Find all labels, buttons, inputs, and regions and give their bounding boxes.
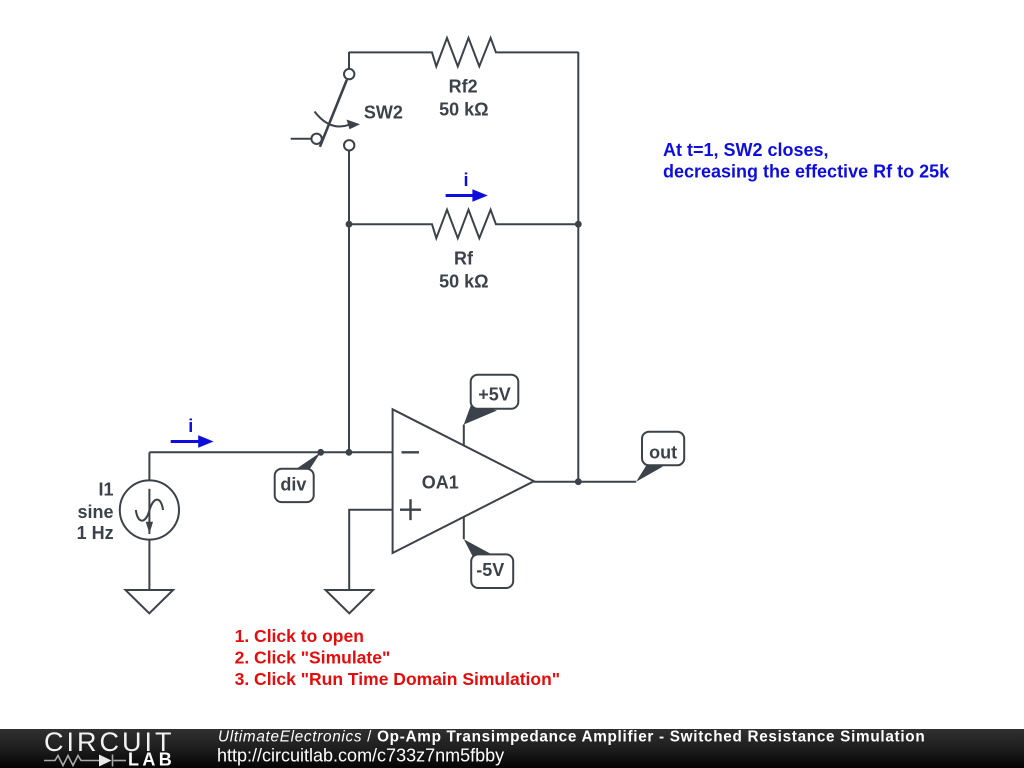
svg-text:UltimateElectronics / Op-Amp T: UltimateElectronics / Op-Amp Transimpeda… [218, 729, 925, 746]
svg-text:At t=1, SW2 closes,: At t=1, SW2 closes, [663, 140, 829, 160]
current source I1 arrowhead [146, 522, 153, 534]
wire non-inverting input [349, 510, 392, 590]
svg-text:i: i [188, 416, 193, 436]
wire +5V supply lead [463, 425, 465, 446]
wire I1 bottom lead [148, 540, 150, 590]
flag -5V tail [464, 539, 492, 557]
flag +5V box [471, 375, 519, 409]
svg-text:div: div [280, 475, 306, 495]
wire I1 top lead [148, 452, 150, 480]
op-amp OA1 minus sign [402, 451, 420, 453]
svg-text:2. Click "Simulate": 2. Click "Simulate" [235, 647, 391, 667]
svg-text:Rf2: Rf2 [449, 77, 478, 97]
flag div box [275, 469, 314, 502]
wire SW2 bottom to Rf node [348, 151, 350, 453]
svg-text:-5V: -5V [476, 560, 504, 580]
resistor Rf [349, 210, 578, 239]
wire right vertical rail [577, 52, 579, 482]
node dot inverting input [346, 449, 353, 456]
resistor Rf2 [349, 38, 578, 67]
svg-text:LAB: LAB [128, 749, 175, 768]
switch SW2 actuation arrowhead [347, 120, 361, 130]
current source I1 arrow shaft [148, 489, 150, 534]
wire top-left vertical (top rail to SW2) [348, 52, 350, 69]
svg-text:50 kΩ: 50 kΩ [439, 272, 488, 292]
svg-text:50 kΩ: 50 kΩ [439, 100, 488, 120]
svg-text:Rf: Rf [454, 249, 474, 269]
op-amp OA1 body [393, 409, 534, 553]
flag div tail [294, 452, 321, 471]
switch SW2 actuation arc [315, 112, 349, 127]
wire inverting input [149, 451, 392, 453]
footer bar [0, 729, 1024, 768]
flag out box [642, 432, 684, 466]
current source I1 circle [120, 480, 179, 539]
svg-text:decreasing the effective Rf to: decreasing the effective Rf to 25k [663, 161, 950, 181]
node dot output [575, 478, 582, 485]
svg-text:SW2: SW2 [364, 103, 403, 123]
svg-text:out: out [649, 443, 677, 463]
switch SW2 common stub [291, 138, 312, 140]
current arrow i at Rf [446, 194, 473, 197]
wire op-amp output [534, 481, 636, 483]
node dot div [317, 449, 324, 456]
flag out tail [636, 464, 663, 482]
svg-text:1. Click to open: 1. Click to open [235, 626, 364, 646]
switch SW2 bottom terminal [344, 140, 354, 150]
svg-text:I1: I1 [98, 480, 113, 500]
switch SW2 blade [320, 80, 347, 147]
svg-text:OA1: OA1 [422, 473, 459, 493]
footer logo resistor-diode symbol [44, 755, 126, 767]
flag -5V box [471, 554, 513, 588]
current arrow i at input [171, 440, 199, 443]
ground G1 under I1 [126, 590, 174, 613]
svg-text:+5V: +5V [478, 385, 511, 405]
svg-text:3. Click "Run Time Domain Simu: 3. Click "Run Time Domain Simulation" [235, 669, 560, 689]
switch SW2 top terminal [344, 69, 354, 79]
node dot Rf right [575, 221, 582, 228]
switch SW2 common terminal [311, 134, 321, 144]
current source I1 sine symbol [136, 500, 163, 521]
node dot Rf left [346, 221, 353, 228]
svg-text:i: i [463, 170, 468, 190]
op-amp OA1 plus sign [400, 499, 421, 520]
svg-text:http://circuitlab.com/c733z7nm: http://circuitlab.com/c733z7nm5fbby [217, 746, 504, 766]
wire -5V supply lead [463, 517, 465, 540]
svg-text:sine: sine [77, 502, 113, 522]
flag +5V tail [464, 404, 497, 425]
ground G2 under op-amp plus input [326, 590, 374, 613]
svg-text:1 Hz: 1 Hz [77, 523, 114, 543]
